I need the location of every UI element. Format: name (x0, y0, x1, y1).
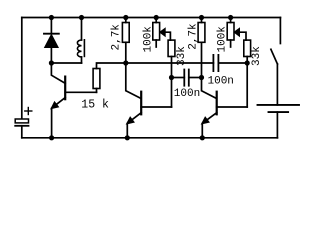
wire left rail lower (21, 126, 23, 138)
junction Q1 emitter on bottom rail (49, 135, 54, 140)
junction coil top on rail (79, 15, 84, 20)
resistor 2.7k #2 (198, 18, 216, 99)
wire coil bottom to node A (51, 62, 81, 64)
resistor 15k (93, 63, 126, 92)
node D Q3 collector junction (199, 75, 204, 80)
junction 100k P1 top on rail (154, 15, 159, 20)
svg-text:2,7k: 2,7k (188, 23, 200, 50)
battery B2 (258, 105, 300, 138)
svg-text:100n: 100n (174, 88, 200, 100)
transistor Q3 (202, 92, 248, 138)
junction 2.7k R2 top on rail (123, 15, 128, 20)
svg-text:2,7k: 2,7k (111, 24, 123, 51)
junction diode top on rail (49, 15, 54, 20)
junction 100k P2 top on rail (228, 15, 233, 20)
node A junction dot (49, 60, 54, 65)
capacitor C1 100n lower (172, 70, 202, 86)
wire left rail upper (21, 18, 23, 120)
potentiometer 100k #1 (153, 18, 171, 48)
transistor Q2 (126, 63, 172, 138)
node E Q3 base junction (245, 60, 250, 65)
junction 2.7k R4 top on rail (199, 15, 204, 20)
switch S1 (271, 18, 281, 105)
resistor 33k #1 (168, 40, 175, 107)
resistor 33k #2 (244, 40, 251, 107)
relay coil L1 (51, 18, 84, 64)
transistor Q1 (51, 63, 97, 138)
svg-text:33k: 33k (251, 46, 263, 66)
wire top rail (22, 17, 281, 19)
svg-text:100n: 100n (208, 75, 234, 87)
diode D1 (44, 18, 59, 64)
svg-text:15 k: 15 k (81, 98, 109, 111)
potentiometer 100k #2 (227, 18, 246, 48)
svg-text:100k: 100k (143, 26, 155, 53)
wire bottom rail (22, 137, 278, 139)
node B Q2 collector junction (123, 60, 128, 65)
junction Q2 emitter on bottom rail (125, 135, 130, 140)
node C Q2 base junction (169, 75, 174, 80)
svg-text:100k: 100k (217, 26, 229, 53)
electrolytic capacitor C3 (positive plate box) (15, 108, 32, 126)
resistor R2 2.7k (122, 18, 129, 64)
capacitor C2 100n upper (126, 55, 247, 71)
junction Q3 emitter on bottom rail (200, 135, 205, 140)
